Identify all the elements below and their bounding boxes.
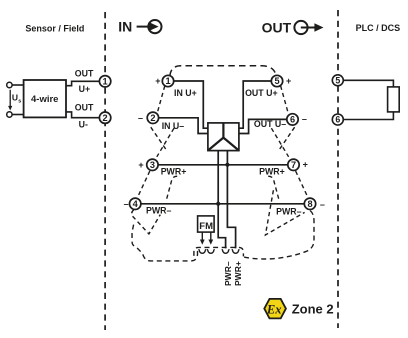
wire plc loop xyxy=(343,80,393,119)
svg-text:5: 5 xyxy=(274,76,279,86)
terminal 5 plc xyxy=(332,75,343,86)
svg-text:OUT: OUT xyxy=(75,68,94,78)
icon OUT (arrow out of circle) xyxy=(294,21,323,34)
svg-text:U: U xyxy=(12,93,18,103)
source terminal left top xyxy=(7,82,12,87)
wire PWR- terminal 4 to terminal 8 xyxy=(141,203,304,205)
svg-text:U-: U- xyxy=(79,119,88,129)
wire isolator to PWR- plug pin xyxy=(218,151,225,249)
svg-text:PWR–: PWR– xyxy=(146,206,172,216)
svg-text:+: + xyxy=(138,160,143,170)
svg-text:4-wire: 4-wire xyxy=(31,94,58,105)
svg-text:–: – xyxy=(138,113,143,123)
svg-text:+: + xyxy=(303,160,308,170)
wire source top to 4-wire box xyxy=(12,84,24,86)
dashed link 6 down xyxy=(279,127,294,150)
dashed loop bottom right from 8 xyxy=(244,211,314,259)
FM box xyxy=(198,216,215,232)
wire terminal 5 to isolator xyxy=(239,81,271,128)
dashed link 7-8 xyxy=(296,171,308,197)
svg-text:6: 6 xyxy=(335,115,340,125)
svg-text:6: 6 xyxy=(290,115,295,125)
svg-text:8: 8 xyxy=(307,199,312,209)
wire terminal 2 to isolator xyxy=(159,118,208,134)
terminal 6 xyxy=(287,114,298,125)
dashed link PWR+ right hook xyxy=(268,176,279,201)
terminal 2 field xyxy=(99,112,110,123)
svg-text:s: s xyxy=(18,98,21,104)
wire PWR+ terminal 3 to terminal 7 xyxy=(158,164,288,166)
svg-text:5: 5 xyxy=(335,75,340,85)
svg-text:Sensor / Field: Sensor / Field xyxy=(25,23,84,33)
svg-text:–: – xyxy=(320,199,325,209)
source terminal left bottom xyxy=(7,112,12,117)
svg-text:OUT: OUT xyxy=(262,19,292,35)
isolator Y divider xyxy=(209,123,238,150)
wire 4-wire box to terminal 2 field xyxy=(66,112,100,118)
FM pin 2 arrow xyxy=(208,232,213,245)
dashed loop bottom left xyxy=(132,225,198,261)
Ex hexagon mark xyxy=(264,299,286,319)
svg-text:IN U+: IN U+ xyxy=(174,88,197,98)
socket PWR- xyxy=(222,249,229,253)
terminal 3 xyxy=(147,159,158,170)
dashed link PWR+ left hook xyxy=(166,176,177,201)
label Us xyxy=(12,93,21,105)
dashed link 5-6 xyxy=(281,86,288,113)
zone separator right (dashed) xyxy=(337,10,339,328)
junction dot PWR- xyxy=(216,202,220,206)
terminal 8 xyxy=(304,198,315,209)
socket FM 1 xyxy=(199,249,206,253)
voltage Us arrow xyxy=(8,90,12,111)
socket FM 2 xyxy=(207,249,214,253)
svg-text:+: + xyxy=(155,76,160,86)
dashed link 2 down xyxy=(151,127,166,150)
svg-text:–: – xyxy=(124,199,129,209)
junction dot PWR+ xyxy=(225,163,229,167)
label OUT U+ field xyxy=(75,68,94,94)
svg-text:OUT U+: OUT U+ xyxy=(245,88,278,98)
label OUT U- field xyxy=(75,103,94,130)
dashed link below 4 xyxy=(132,210,161,234)
terminal 2 xyxy=(147,112,158,123)
svg-text:IN U–: IN U– xyxy=(162,121,185,131)
terminal 1 field xyxy=(99,76,110,87)
svg-text:FM: FM xyxy=(199,221,213,232)
svg-text:3: 3 xyxy=(150,160,155,170)
socket PWR+ xyxy=(232,249,239,253)
zone separator left (dashed) xyxy=(104,12,106,330)
svg-text:OUT: OUT xyxy=(75,103,94,113)
svg-text:Zone 2: Zone 2 xyxy=(292,302,334,317)
dashed link 1-2 xyxy=(157,86,164,113)
4-wire box xyxy=(24,80,66,117)
svg-text:PWR+: PWR+ xyxy=(233,261,243,286)
terminal 1 xyxy=(162,75,173,86)
terminal 6 plc xyxy=(332,114,343,125)
svg-text:1: 1 xyxy=(103,77,108,87)
dashed link to 3 xyxy=(157,128,174,157)
svg-text:OUT U–: OUT U– xyxy=(254,119,286,129)
dashed link to 7 xyxy=(271,128,288,157)
dashed link 3-4 xyxy=(138,171,150,197)
wire 4-wire box to terminal 1 field xyxy=(66,81,100,85)
terminal 7 xyxy=(288,159,299,170)
dashed link below 8 xyxy=(265,190,304,235)
FM pin 1 arrow xyxy=(200,232,205,245)
svg-text:2: 2 xyxy=(150,113,155,123)
svg-text:IN: IN xyxy=(118,18,132,34)
terminal 5 xyxy=(271,75,282,86)
terminal 4 xyxy=(130,198,141,209)
dashed link terminal 1 to terminal 5 (top) xyxy=(170,66,276,76)
wire source bottom to 4-wire box xyxy=(12,114,24,116)
svg-text:PWR–: PWR– xyxy=(276,206,302,216)
wire terminal 6 to isolator xyxy=(239,119,287,133)
svg-text:PWR+: PWR+ xyxy=(259,167,285,177)
svg-text:+: + xyxy=(286,76,291,86)
resistor load xyxy=(388,87,400,112)
svg-text:PLC / DCS: PLC / DCS xyxy=(356,23,401,33)
svg-text:Ex: Ex xyxy=(266,303,282,317)
svg-text:7: 7 xyxy=(291,160,296,170)
wire isolator to PWR+ plug pin xyxy=(227,151,235,249)
svg-text:1: 1 xyxy=(165,76,170,86)
wire terminal 1 to isolator xyxy=(174,81,208,128)
dashed plug boundary under FM xyxy=(194,247,244,256)
svg-text:U+: U+ xyxy=(79,84,91,94)
icon IN (arrow into circle) xyxy=(137,20,162,33)
svg-text:–: – xyxy=(302,114,307,124)
svg-text:PWR+: PWR+ xyxy=(161,166,187,176)
svg-text:2: 2 xyxy=(103,113,108,123)
svg-text:PWR–: PWR– xyxy=(223,261,233,286)
isolator U1 box xyxy=(208,123,239,151)
svg-text:4: 4 xyxy=(133,199,139,209)
